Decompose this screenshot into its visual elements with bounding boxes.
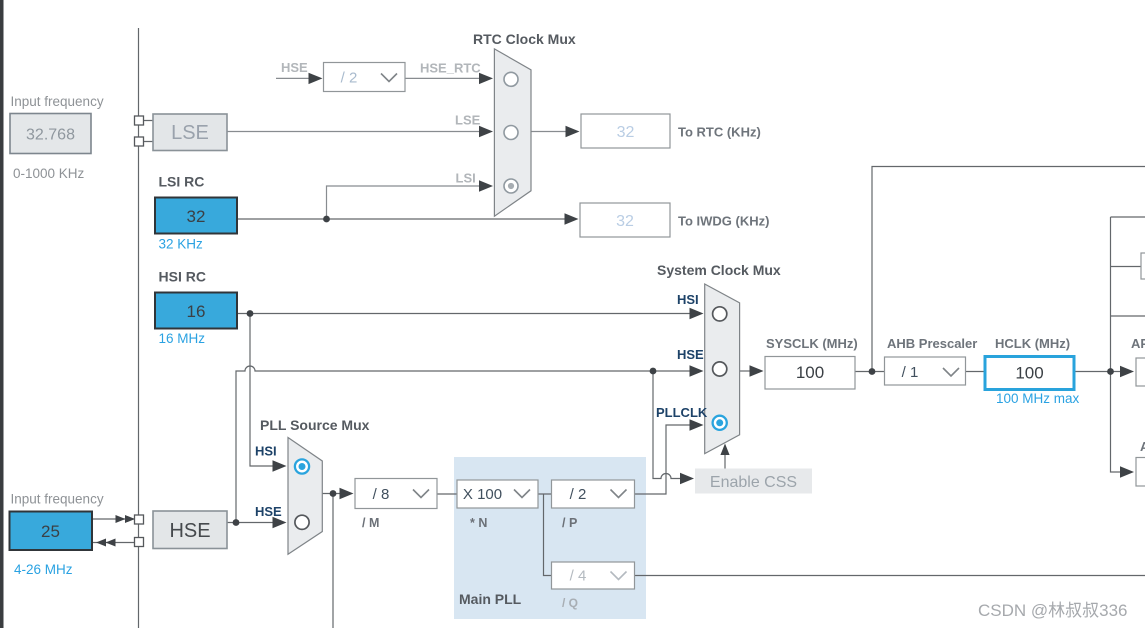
- svg-text:/ 8: / 8: [373, 486, 390, 503]
- svg-text:100 MHz max: 100 MHz max: [996, 391, 1080, 406]
- svg-text:/ 2: / 2: [341, 70, 358, 87]
- svg-text:HSE: HSE: [169, 520, 210, 542]
- svg-text:HSE: HSE: [281, 60, 308, 75]
- svg-text:APB2 Prescaler: APB2 Prescaler: [1140, 439, 1145, 454]
- svg-text:32: 32: [616, 213, 634, 230]
- svg-text:SYSCLK (MHz): SYSCLK (MHz): [766, 336, 858, 351]
- svg-text:/ 4: / 4: [570, 568, 587, 585]
- svg-text:LSI RC: LSI RC: [159, 174, 205, 190]
- svg-text:Input frequency: Input frequency: [11, 492, 104, 507]
- svg-text:System Clock Mux: System Clock Mux: [657, 262, 781, 278]
- svg-text:Input frequency: Input frequency: [11, 94, 104, 109]
- svg-text:/ P: / P: [562, 516, 577, 530]
- svg-text:32 KHz: 32 KHz: [159, 237, 204, 252]
- svg-text:/ 2: / 2: [570, 486, 587, 503]
- svg-text:Main PLL: Main PLL: [459, 591, 522, 607]
- svg-text:/ 1: / 1: [902, 364, 919, 381]
- svg-text:0-1000 KHz: 0-1000 KHz: [13, 166, 85, 181]
- svg-text:PLL Source Mux: PLL Source Mux: [260, 417, 370, 433]
- svg-text:HSE: HSE: [255, 504, 282, 519]
- svg-text:HSI: HSI: [677, 292, 699, 307]
- svg-text:LSE: LSE: [171, 122, 209, 144]
- svg-text:32: 32: [187, 207, 206, 226]
- svg-text:CSDN @林叔叔336: CSDN @林叔叔336: [978, 601, 1128, 620]
- svg-text:X 100: X 100: [463, 486, 502, 503]
- svg-text:APB1 Prescaler: APB1 Prescaler: [1131, 336, 1145, 351]
- svg-text:LSI: LSI: [456, 171, 476, 186]
- svg-text:RTC Clock Mux: RTC Clock Mux: [473, 31, 576, 47]
- svg-text:HSI: HSI: [255, 444, 277, 459]
- svg-text:32.768: 32.768: [26, 127, 75, 144]
- svg-text:LSE: LSE: [455, 113, 481, 128]
- svg-text:PLLCLK: PLLCLK: [656, 405, 708, 420]
- svg-text:/ M: / M: [362, 516, 379, 530]
- svg-text:HSE_RTC: HSE_RTC: [420, 61, 481, 76]
- svg-text:AHB Prescaler: AHB Prescaler: [887, 336, 977, 351]
- svg-text:HSE: HSE: [677, 347, 704, 362]
- svg-text:32: 32: [617, 124, 635, 141]
- svg-text:To IWDG (KHz): To IWDG (KHz): [678, 214, 769, 229]
- svg-text:4-26 MHz: 4-26 MHz: [14, 562, 73, 577]
- svg-text:HCLK (MHz): HCLK (MHz): [995, 336, 1070, 351]
- svg-text:100: 100: [1015, 364, 1043, 383]
- svg-text:100: 100: [796, 363, 824, 382]
- svg-text:HSI RC: HSI RC: [159, 269, 206, 285]
- svg-text:* N: * N: [470, 516, 487, 530]
- svg-text:/ Q: / Q: [562, 596, 578, 610]
- svg-text:Enable CSS: Enable CSS: [710, 474, 797, 491]
- svg-text:16: 16: [187, 302, 206, 321]
- svg-text:25: 25: [41, 522, 60, 541]
- svg-text:16 MHz: 16 MHz: [159, 331, 206, 346]
- svg-text:To RTC (KHz): To RTC (KHz): [678, 125, 761, 140]
